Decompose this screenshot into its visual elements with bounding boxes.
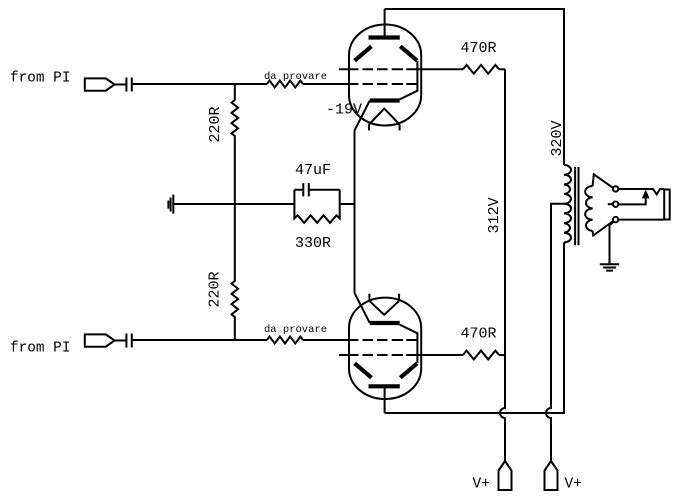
tube V2 beam plate to cathode connector — [400, 325, 418, 363]
wire: jack sleeve to ground — [610, 222, 614, 264]
wire: 470R to screen supply line (bottom) — [499, 354, 505, 356]
wire: tag to coupling cap (top) — [115, 84, 127, 86]
svg-text:47uF: 47uF — [295, 162, 331, 179]
tube V1 beam plate to cathode connector — [400, 61, 418, 99]
capacitor: input coupling cap (top) — [126, 78, 131, 92]
wire: RC network to cathode bus — [340, 203, 355, 205]
tube V2 cathode bar — [370, 321, 400, 325]
capacitor: input coupling cap (bottom) — [126, 334, 131, 348]
tube V1 heater — [369, 109, 400, 131]
tube V1 screen grid (dashed) — [339, 68, 421, 70]
svg-text:da provare: da provare — [264, 71, 327, 83]
wire: V1 screen to 470R — [421, 68, 463, 70]
tube V1 control grid (dashed) — [363, 83, 418, 85]
svg-text:from PI: from PI — [10, 340, 70, 356]
wire: jack tip line with switch notch — [619, 189, 665, 194]
wire: screen supply line 312V with hop — [500, 69, 505, 461]
text: 220R (bottom) — [207, 271, 224, 307]
capacitor C1 47uF — [294, 183, 339, 196]
wire: secondary bottom terminal fan — [593, 221, 614, 236]
wire: jack ring switch arm — [619, 198, 646, 204]
svg-text:220R: 220R — [207, 106, 224, 142]
text: 320V — [549, 120, 566, 156]
tube V2 screen grid (dashed) — [339, 354, 421, 356]
transformer T1 core — [575, 167, 578, 245]
svg-text:330R: 330R — [295, 235, 331, 252]
resistor R2 220R (bottom) — [232, 204, 239, 340]
jack J1 tip terminal — [613, 186, 618, 191]
tube V1 envelope — [349, 25, 421, 126]
tube V1 plate bar — [369, 35, 400, 39]
svg-text:470R: 470R — [461, 326, 497, 343]
connector: input tag (bottom) — [85, 334, 115, 346]
jack J1 plug barrel — [664, 190, 670, 220]
tube V1 (top output tube) — [339, 9, 421, 131]
tube V2 envelope — [349, 298, 421, 399]
svg-text:da provare: da provare — [264, 324, 327, 336]
ground: speaker jack ground — [600, 264, 619, 270]
wire: jack ring stub — [608, 203, 613, 205]
resistor: grid stopper da provare (bottom) — [267, 337, 303, 344]
resistor: grid stopper da provare (top) — [267, 81, 303, 88]
wire: cathode bus — [354, 131, 356, 294]
resistor R5 470R (bottom) — [463, 351, 499, 360]
tube V1 plate lead — [384, 9, 386, 38]
text: 220R (top) — [207, 106, 224, 142]
connector: input tag (top) — [85, 78, 115, 90]
svg-text:470R: 470R — [461, 40, 497, 57]
wire: bottom rail to transformer primary — [385, 242, 564, 413]
wire: bottom input line — [132, 339, 267, 341]
svg-text:V+: V+ — [473, 477, 490, 493]
tube V2 cathode lead — [355, 293, 370, 323]
wire: grid stopper to V2 control grid — [303, 339, 358, 341]
wire: top input line — [132, 83, 267, 85]
tube V2 (bottom output tube) — [339, 293, 421, 413]
tube V2 plate lead — [384, 386, 386, 413]
resistor R1 220R (top) — [232, 84, 239, 204]
connector: V+ terminal (right) — [545, 461, 558, 490]
wire: grid stopper to V1 control grid — [303, 83, 358, 85]
tube V1 right beam plate — [400, 46, 417, 60]
text: 312V — [486, 197, 503, 233]
svg-text:from PI: from PI — [10, 71, 70, 87]
tube V2 right beam plate — [400, 363, 417, 377]
tube V2 control grid (dashed) — [363, 339, 418, 341]
tube V2 left beam plate — [355, 363, 372, 377]
jack J1 sleeve terminal — [613, 217, 618, 222]
wire: ground to RC network — [173, 203, 294, 205]
wire: top HT rail — [385, 9, 564, 165]
tube V1 cathode lead — [355, 101, 370, 131]
tube V2 heater — [369, 294, 399, 315]
ground: bias network ground — [168, 195, 173, 214]
connector: V+ terminal (left) — [499, 461, 512, 490]
tube V2 plate bar — [369, 384, 400, 388]
resistor R4 470R (top) — [463, 65, 499, 74]
jack J1 ring terminal — [613, 202, 618, 207]
resistor R3 330R — [294, 190, 339, 223]
wire: V2 screen to 470R — [421, 354, 463, 356]
wire: tag to coupling cap (bottom) — [115, 340, 127, 342]
svg-text:220R: 220R — [207, 271, 224, 307]
wire: jack sleeve line — [619, 219, 664, 221]
svg-text:-19V: -19V — [326, 102, 362, 119]
wire: 470R to screen supply line — [499, 68, 505, 70]
jack J1 switch arrow — [642, 189, 650, 198]
tube V1 cathode bar — [370, 98, 400, 102]
svg-text:V+: V+ — [565, 477, 582, 493]
svg-text:320V: 320V — [549, 120, 566, 156]
transformer T1 secondary winding — [585, 186, 592, 231]
wire: secondary top terminal fan — [593, 174, 614, 188]
wire: transformer center tap with hop — [546, 204, 564, 461]
transformer T1 primary winding — [564, 165, 571, 242]
svg-text:312V: 312V — [486, 197, 503, 233]
tube V1 left beam plate — [355, 46, 372, 60]
